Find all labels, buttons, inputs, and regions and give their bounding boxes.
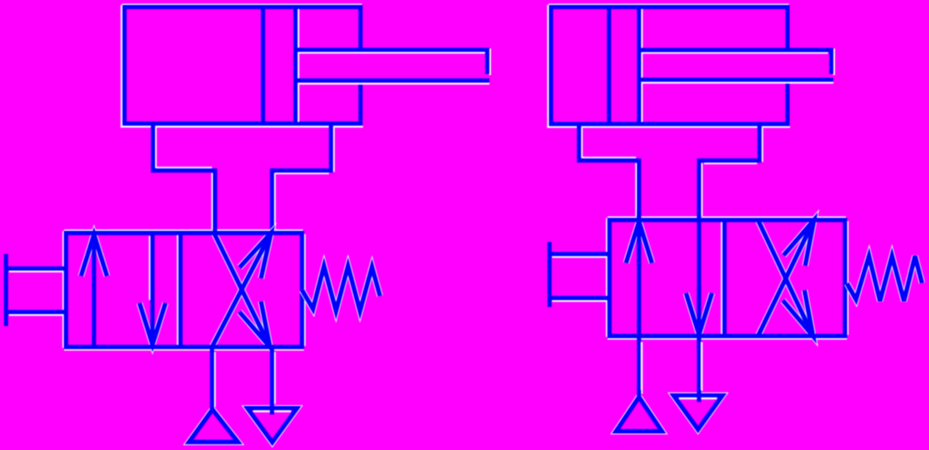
valve V2 down arrowhead xyxy=(686,286,712,348)
valve V2 crossover lines with arrowheads xyxy=(758,220,814,336)
wire A2 bottom-left stub xyxy=(579,124,582,163)
cylinder A1 body xyxy=(121,5,364,127)
cylinder A2 body xyxy=(547,5,790,127)
cylinder A1 piston line 2 xyxy=(296,7,299,124)
wire A2 horizontal right xyxy=(697,161,762,164)
valve V1 divider xyxy=(178,233,181,347)
valve V2 up arrowhead xyxy=(626,210,652,270)
valve V1 return spring xyxy=(302,266,380,311)
wire A1 vertical to valve port xyxy=(212,169,215,236)
wire B1 vertical to valve port xyxy=(272,169,275,236)
exhaust E1b wire and triangle (apex down) xyxy=(248,347,298,442)
exhaust E2b triangle (apex down) xyxy=(674,342,723,430)
exhaust E1a wire and triangle (apex up) xyxy=(188,347,240,442)
pilot P1 lower line xyxy=(6,312,66,315)
cylinder A2 rod top line xyxy=(639,50,831,53)
cylinder A1 rod end cap xyxy=(487,48,490,75)
wire A1 bottom-left stub xyxy=(153,124,156,173)
exhaust E2a triangle (apex up) xyxy=(615,342,664,431)
cylinder A1 piston line 1 xyxy=(261,7,265,124)
valve V1 body outline (redrawn on top) xyxy=(66,233,302,347)
pilot P2 plate xyxy=(547,242,551,307)
pilot P2 upper line xyxy=(550,254,610,257)
wire A2 bottom-right stub xyxy=(760,124,763,163)
valve V2 body xyxy=(607,217,848,338)
wire B2 vertical through valve (down-arrow line) xyxy=(699,159,702,395)
wire A2 horizontal left xyxy=(577,158,641,161)
valve V2 return spring xyxy=(847,256,922,301)
pilot P1 upper line xyxy=(6,269,66,272)
valve V1 down arrow xyxy=(140,233,166,345)
valve V2 body outline (redrawn on top) xyxy=(610,220,846,336)
cylinder A2 rod bottom line xyxy=(639,80,834,83)
valve V2 divider xyxy=(722,220,725,336)
cylinder A1 rod bottom line xyxy=(296,81,490,84)
wire A2 vertical through valve (up-arrow line) xyxy=(636,159,639,398)
wire A1 horizontal left xyxy=(151,168,217,171)
cylinder A2 piston line 2 xyxy=(639,7,642,124)
pilot P2 lower line xyxy=(550,298,610,301)
wire A1 horizontal right xyxy=(270,171,333,174)
valve V1 body xyxy=(63,230,304,349)
pilot P1 plate xyxy=(4,254,8,326)
valve V1 crossover lines with arrowheads xyxy=(212,233,271,347)
cylinder A1 rod top line xyxy=(296,50,488,53)
valve V1 up arrow xyxy=(81,235,107,348)
cylinder A2 piston line 1 xyxy=(607,7,611,124)
wire A1 bottom-right stub xyxy=(331,124,334,173)
cylinder A2 rod end cap xyxy=(831,48,834,75)
